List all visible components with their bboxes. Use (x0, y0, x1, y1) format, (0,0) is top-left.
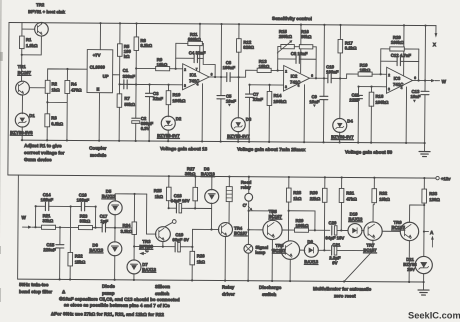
svg-text:R14: R14 (273, 93, 282, 98)
svg-text:kΩ: kΩ (124, 54, 130, 59)
svg-text:68μF 6V: 68μF 6V (172, 237, 189, 242)
svg-text:330nF: 330nF (123, 74, 136, 79)
resistor R9 (136, 67, 155, 69)
svg-text:1kΩ: 1kΩ (155, 194, 164, 199)
wire IC3 pin7 to rail (403, 25, 405, 75)
svg-text:9V: 9V (332, 260, 337, 265)
svg-text:R10: R10 (172, 92, 181, 97)
wire IC2 pin7 to rail (300, 25, 302, 73)
decoupling line with C9 (323, 25, 326, 142)
wire UP output (113, 74, 120, 76)
svg-text:R3: R3 (51, 115, 57, 120)
svg-text:2: 2 (184, 68, 186, 72)
svg-text:4: 4 (401, 86, 403, 90)
resistor R6 (135, 23, 137, 36)
resistor R1 (21, 23, 23, 36)
svg-text:Coupler: Coupler (89, 146, 107, 151)
svg-text:R25: R25 (154, 188, 163, 193)
svg-text:64μF 16V: 64μF 16V (325, 235, 344, 240)
wire IC3 non-inv input (359, 86, 387, 88)
svg-text:BC107: BC107 (234, 231, 248, 236)
svg-text:pump: pump (102, 291, 115, 296)
svg-text:820Ω: 820Ω (243, 45, 254, 50)
svg-text:R18: R18 (375, 94, 384, 99)
svg-text:R31: R31 (346, 190, 355, 195)
resistor R14 (268, 85, 270, 91)
svg-text:Δ: Δ (62, 289, 66, 294)
svg-text:64μF 16V: 64μF 16V (171, 198, 190, 203)
wire IC3 pin4 to 0V (405, 87, 407, 143)
op-amp IC1 741C (183, 64, 210, 90)
TR5 emitter wire (271, 240, 273, 281)
svg-text:BZY88-6V7: BZY88-6V7 (227, 134, 250, 139)
zener D4 BZY88-6V7 (339, 78, 341, 118)
svg-text:lamp: lamp (255, 250, 265, 255)
svg-text:8.2kΩ: 8.2kΩ (140, 43, 152, 48)
resistor R5 (119, 23, 121, 43)
capacitor C9 10nF (320, 96, 328, 99)
test point C marker (139, 252, 144, 255)
svg-text:100kΩ: 100kΩ (273, 99, 287, 104)
svg-text:BAX13: BAX13 (142, 267, 156, 272)
+12V rail (8, 175, 436, 178)
svg-text:250kΩ: 250kΩ (279, 34, 293, 39)
svg-text:BC107: BC107 (269, 214, 283, 219)
svg-text:✱10nF capacitors C5,C9, and C1: ✱10nF capacitors C5,C9, and C13 should b… (59, 296, 180, 302)
svg-text:C1: C1 (123, 68, 129, 73)
svg-text:100kΩ: 100kΩ (375, 100, 389, 105)
resistor R22 15k (69, 206, 71, 252)
svg-text:1μF: 1μF (101, 219, 109, 224)
wire IC1 output (209, 76, 227, 78)
svg-text:100nF: 100nF (223, 65, 236, 70)
wire TR7 to TR9 (382, 230, 400, 232)
svg-text:A: A (430, 230, 434, 235)
svg-text:correct voltage for: correct voltage for (24, 150, 65, 155)
capacitor C15 220nF (59, 227, 61, 244)
svg-text:BAX13: BAX13 (102, 194, 116, 199)
svg-text:BC107: BC107 (18, 70, 32, 75)
wire box top to rail (99, 23, 101, 49)
svg-text:1kΩ: 1kΩ (293, 196, 302, 201)
svg-text:as close as possible between p: as close as possible between pins 4 and … (64, 302, 170, 308)
svg-text:4: 4 (197, 82, 199, 86)
resistor R25 (168, 176, 170, 187)
relay coil (228, 177, 230, 187)
svg-text:Diode: Diode (102, 284, 115, 289)
svg-text:56kΩ: 56kΩ (124, 102, 135, 107)
wire feedback right leg to output (203, 44, 215, 77)
svg-text:D4: D4 (347, 118, 353, 123)
transistor TR2 (35, 22, 49, 36)
svg-text:relay: relay (241, 185, 252, 190)
svg-text:BAX13: BAX13 (304, 259, 318, 264)
electrolytic C2 680uF (135, 84, 137, 117)
svg-text:D9: D9 (307, 239, 313, 244)
resistor R2 (45, 80, 50, 93)
svg-text:470Ω: 470Ω (71, 87, 82, 92)
TR7 emitter to C21 row (372, 240, 374, 250)
capacitor C5 10nF (217, 96, 225, 99)
svg-text:50Hz twin-tee: 50Hz twin-tee (19, 282, 49, 287)
svg-text:IC2: IC2 (291, 74, 298, 79)
capacitor C13 10nF (421, 91, 429, 94)
svg-text:R7: R7 (124, 96, 130, 101)
wire IC2 non-inv input (250, 84, 284, 86)
svg-text:100nF: 100nF (77, 198, 90, 203)
svg-text:10kΩ: 10kΩ (379, 197, 390, 202)
0V rail of amplifier section (21, 140, 424, 143)
svg-text:220nF: 220nF (43, 247, 56, 252)
transistor TR3 (155, 227, 170, 242)
wire TR2 base (22, 28, 35, 30)
resistor R33 (423, 178, 425, 189)
TR3 emitter (162, 242, 164, 247)
svg-text:R30: R30 (310, 190, 319, 195)
svg-text:10nF: 10nF (410, 94, 420, 99)
svg-text:3: 3 (388, 87, 390, 91)
svg-text:Voltage gain about 7min 25max: Voltage gain about 7min 25max (237, 147, 306, 153)
svg-text:CL8960: CL8960 (90, 65, 106, 70)
svg-text:+7V: +7V (93, 53, 101, 58)
wire R2/R4 tops (48, 69, 88, 81)
resistor R17 (339, 25, 341, 39)
svg-text:10nF: 10nF (226, 99, 236, 104)
ground lower right (418, 290, 429, 295)
capacitor C7 22nF (248, 85, 250, 94)
resistor R28 (288, 177, 290, 188)
svg-text:22nF: 22nF (153, 96, 163, 101)
TR3 collector to terminal (165, 223, 173, 227)
wire D5 cathode to silicon switch (115, 193, 146, 195)
decoupling line with C13 (424, 26, 427, 143)
svg-text:10V: 10V (407, 267, 415, 272)
transistor TR5 (248, 229, 262, 231)
wire D5 line to TR3 base (146, 194, 156, 234)
svg-text:1kΩ: 1kΩ (197, 259, 206, 264)
resistor R10 (168, 85, 170, 91)
wire R28 to R29 node (288, 211, 315, 230)
wire IC2 feedback right leg (315, 47, 317, 78)
resistor R4 (65, 80, 70, 93)
svg-text:6: 6 (311, 74, 313, 78)
svg-text:Adjust R1 to give: Adjust R1 to give (24, 143, 62, 148)
svg-text:Relay: Relay (222, 285, 235, 290)
svg-text:3: 3 (285, 85, 287, 89)
zener D2 BZY88-6V7 (161, 116, 175, 130)
wire TR2 emitter (22, 36, 42, 55)
wire feedback left leg (175, 43, 177, 68)
zener D11 BZY88 10V (415, 256, 432, 273)
svg-text:module: module (90, 153, 107, 158)
resistor R30 (324, 177, 326, 188)
svg-text:zero reset: zero reset (334, 293, 356, 298)
bottom 0V rail (18, 279, 424, 282)
node A takeoff (424, 231, 428, 233)
svg-text:W: W (442, 79, 447, 84)
svg-text:R1: R1 (26, 37, 32, 42)
wire IC2 pin4 to 0V (303, 85, 305, 142)
resistor R18 (370, 87, 372, 92)
svg-text:IC1: IC1 (190, 72, 197, 77)
svg-text:10nF: 10nF (309, 99, 319, 104)
capacitor C3 22nF (148, 85, 150, 93)
svg-text:R22: R22 (75, 253, 84, 258)
svg-text:switch: switch (155, 291, 170, 296)
svg-text:180kΩ: 180kΩ (391, 40, 405, 45)
svg-text:Sensitivity control: Sensitivity control (272, 16, 312, 21)
svg-text:C12 4.7nF: C12 4.7nF (391, 53, 412, 58)
svg-text:TR1: TR1 (18, 64, 27, 69)
svg-text:33kΩ: 33kΩ (43, 218, 54, 223)
svg-text:R26: R26 (197, 253, 206, 258)
svg-text:47kΩ: 47kΩ (346, 196, 357, 201)
svg-text:22kΩ: 22kΩ (310, 196, 321, 201)
svg-text:R33: R33 (429, 191, 438, 196)
resistor R12 (238, 24, 240, 38)
svg-text:100kΩ: 100kΩ (172, 98, 186, 103)
wire to TR4 base (192, 229, 219, 247)
svg-text:R28: R28 (293, 190, 302, 195)
wire to TR1 collector (21, 55, 23, 81)
svg-text:switch: switch (262, 292, 277, 297)
svg-text:BAX13: BAX13 (89, 248, 103, 253)
svg-text:1kΩ: 1kΩ (51, 87, 60, 92)
svg-text:BC107: BC107 (272, 248, 286, 253)
svg-text:UP: UP (103, 74, 109, 79)
node X takeoff (435, 26, 437, 34)
svg-text:E: E (96, 87, 99, 92)
svg-text:BAX13: BAX13 (201, 171, 215, 176)
svg-text:130Ω: 130Ω (429, 197, 440, 202)
svg-text:band stop filter: band stop filter (19, 289, 52, 294)
svg-text:33kΩ: 33kΩ (80, 219, 91, 224)
svg-text:39kΩ: 39kΩ (185, 171, 196, 176)
wire IC1 pin4 to 0V (201, 84, 203, 142)
wire IC3 output to W (413, 79, 431, 81)
wire IC3 feedback legs (381, 49, 419, 81)
decoupling line with C5 (220, 24, 223, 141)
svg-text:Silicon: Silicon (155, 284, 170, 289)
svg-text:Gunn device: Gunn device (24, 157, 52, 162)
capacitor C11 22nF (357, 87, 359, 95)
resistor R31 (341, 177, 343, 188)
svg-text:BZY88-6V7: BZY88-6V7 (157, 133, 180, 138)
transistor TR1 (16, 81, 30, 95)
wire TR1 base to R2 (30, 87, 46, 89)
diode D9 BAX13 (300, 249, 305, 251)
svg-text:Voltage gain about 50: Voltage gain about 50 (345, 149, 393, 154)
svg-text:ΔFor 60Hz use 27kΩ for R21, R2: ΔFor 60Hz use 27kΩ for R21, R23, and 12k… (51, 311, 165, 317)
svg-text:22nF: 22nF (253, 97, 263, 102)
wire R2/R4 bottoms (47, 93, 67, 140)
wire IC1 non-inv input (120, 83, 183, 85)
wire TR1 emitter to D1 (21, 95, 23, 114)
test point C' marker (248, 206, 251, 209)
transistor TR6 (281, 241, 300, 260)
svg-text:15kΩ: 15kΩ (75, 259, 86, 264)
top supply rail (9, 22, 436, 25)
svg-text:BZY88-6V7: BZY88-6V7 (331, 134, 354, 139)
svg-text:BZY88-5V6: BZY88-5V6 (10, 130, 33, 135)
svg-text:6: 6 (414, 76, 416, 80)
transistor TR9 (400, 222, 419, 241)
transistor TR7 (364, 222, 383, 241)
svg-text:3: 3 (184, 84, 186, 88)
wire emitter row (134, 245, 175, 247)
svg-text:4: 4 (298, 84, 300, 88)
svg-text:8.2kΩ: 8.2kΩ (345, 45, 357, 50)
wire box E pin to 0V (98, 93, 100, 141)
svg-text:TR2: TR2 (36, 2, 45, 7)
left border wire (8, 22, 9, 174)
svg-text:2: 2 (285, 70, 287, 74)
resistor R32 (373, 178, 375, 189)
diode D7 BAX13 (133, 246, 135, 260)
discharge diagonal wire (344, 250, 373, 281)
coupler module box CL8960 (87, 50, 113, 93)
svg-text:BC107: BC107 (363, 248, 377, 253)
svg-text:R32: R32 (379, 191, 388, 196)
resistor R24 (133, 194, 135, 222)
ground under C13 (424, 143, 426, 151)
wire IC2 output (310, 77, 328, 79)
scan edge artifact (0, 0, 2, 322)
resistor R7 (117, 94, 122, 108)
zener D3 BZY88-6V7 (237, 77, 239, 118)
svg-text:D1: D1 (29, 113, 35, 118)
wire IC1 pin7 to rail (199, 24, 201, 72)
wire IC2 feedback left leg (277, 47, 279, 71)
svg-text:6.8kΩ: 6.8kΩ (51, 121, 63, 126)
TR6 emitter (289, 259, 291, 281)
svg-text:100nF: 100nF (41, 197, 54, 202)
resistor R3 (46, 102, 48, 113)
left border of lower section (17, 175, 20, 279)
svg-text:R24: R24 (122, 223, 131, 228)
resistor R26 (191, 247, 193, 251)
svg-text:6: 6 (211, 72, 213, 76)
diode D1 BZY88-5V6 (15, 113, 29, 127)
TR9 collector wire (410, 205, 425, 222)
svg-text:Multivibrator for automatic: Multivibrator for automatic (313, 286, 372, 291)
svg-text:SeekIC.com: SeekIC.com (408, 311, 460, 321)
svg-text:Voltage gain about 13: Voltage gain about 13 (160, 146, 208, 151)
svg-text:7: 7 (196, 67, 198, 71)
svg-text:6.3V: 6.3V (141, 126, 150, 131)
svg-text:56kΩ: 56kΩ (301, 34, 312, 39)
TR5 collector wire (249, 211, 273, 221)
op-amp IC3 741C (386, 67, 412, 93)
electrolytic C18 (169, 207, 177, 209)
svg-text:+12v: +12v (441, 176, 451, 181)
svg-text:2: 2 (388, 73, 390, 77)
svg-text:3.3kΩ: 3.3kΩ (120, 229, 132, 234)
svg-text:1.8kΩ: 1.8kΩ (26, 43, 38, 48)
svg-text:X: X (433, 42, 437, 47)
svg-text:100kΩ: 100kΩ (295, 223, 309, 228)
svg-text:D2: D2 (176, 116, 182, 121)
resistor R27 (194, 176, 196, 187)
svg-text:C': C' (243, 203, 247, 208)
svg-text:IC3: IC3 (394, 76, 401, 81)
svg-text:Discharge: Discharge (259, 285, 282, 290)
transistor TR4 (218, 223, 232, 237)
svg-text:driver: driver (222, 292, 235, 297)
svg-text:BC107: BC107 (391, 225, 405, 230)
+12V terminal (436, 176, 439, 179)
op-amp IC2 741C (284, 66, 310, 92)
svg-text:W: W (22, 215, 27, 220)
svg-text:C20: C20 (329, 220, 338, 225)
TR9 emitter wire (408, 241, 410, 282)
svg-text:BAX13: BAX13 (349, 216, 363, 221)
svg-text:R4: R4 (71, 81, 77, 86)
svg-text:R2: R2 (52, 81, 58, 86)
svg-text:BFY51 + heat sink: BFY51 + heat sink (28, 9, 66, 14)
wire input node riser (35, 206, 45, 227)
